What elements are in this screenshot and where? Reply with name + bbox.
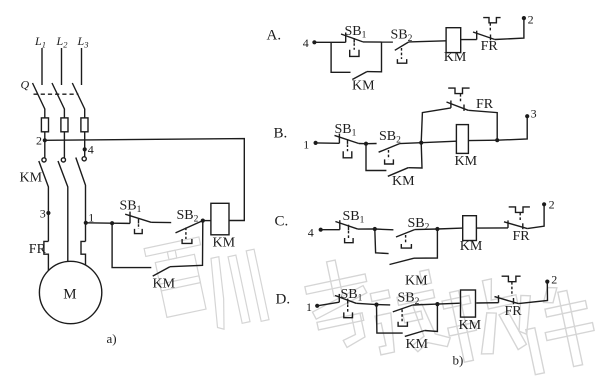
svg-text:KM: KM <box>406 337 429 352</box>
svg-text:SB1: SB1 <box>345 24 367 41</box>
coil KM label (B) <box>455 154 478 169</box>
watermark char 川 <box>203 249 269 330</box>
svg-text:D.: D. <box>276 292 291 308</box>
svg-text:KM: KM <box>405 274 428 289</box>
node label L2 <box>56 34 69 50</box>
wire coil to FR (C) <box>476 227 508 229</box>
wire fuse2 down <box>63 132 65 158</box>
SB2 (C) actuator <box>401 235 411 248</box>
switch Q pole 1 blade <box>33 83 45 118</box>
terminal 3 (B) <box>525 114 529 118</box>
wire junction to coil (B) <box>421 141 456 143</box>
watermark char 考 <box>301 255 380 354</box>
FR label (B) <box>476 97 494 112</box>
pushbutton SB2 (D) NO contact <box>393 305 413 312</box>
svg-text:2: 2 <box>36 134 42 148</box>
svg-text:M: M <box>63 286 76 302</box>
SB1 (C) actuator <box>345 231 354 243</box>
node 4 <box>83 147 87 151</box>
terminal 2 (D) <box>545 280 549 284</box>
wire aux branch (B) right <box>408 143 422 168</box>
svg-text:3: 3 <box>40 207 46 221</box>
terminal 4 label (C) <box>308 226 314 240</box>
wire FR branch right-down (B) <box>468 110 497 140</box>
wire SB2 to coil (A) <box>409 41 446 42</box>
SB1 (B) actuator <box>343 144 352 157</box>
junction after SB1 (D) <box>374 303 378 307</box>
junction after SB1 (B) <box>364 142 368 146</box>
KM aux contact (D) <box>405 331 425 337</box>
svg-text:A.: A. <box>267 28 282 44</box>
junction after node 1 <box>110 221 114 225</box>
contactor coil KM (a) <box>211 203 229 235</box>
svg-text:FR: FR <box>476 97 494 112</box>
pushbutton SB2 label (B) <box>379 129 401 146</box>
pushbutton SB1 (C) NC contact <box>335 220 357 230</box>
svg-text:KM: KM <box>455 154 478 169</box>
wire coil to FR (A) <box>461 39 477 41</box>
wire junction to coil (C) <box>437 227 462 230</box>
thermal contact FR (D) <box>495 295 519 304</box>
node label L1 <box>34 34 46 50</box>
svg-text:KM: KM <box>20 171 43 186</box>
node 1 label <box>88 211 94 225</box>
SB2 (B) actuator <box>385 150 394 164</box>
wire SB1 to junction (C) <box>358 228 375 230</box>
node label L3 <box>77 34 89 50</box>
junction after SB2 (B) <box>419 141 423 145</box>
wire aux branch down (a) <box>170 221 203 267</box>
wire coil to junction (B) <box>468 139 497 141</box>
svg-text:FR: FR <box>513 229 531 244</box>
terminal 1 label (D) <box>306 300 312 314</box>
thermal contact FR (B) <box>447 101 469 111</box>
wire node1 down <box>85 223 87 242</box>
SB2 (D) actuator <box>398 310 407 327</box>
wire aux branch (B) left <box>366 144 386 171</box>
contactor KM main label <box>20 171 43 186</box>
svg-text:L3: L3 <box>77 34 89 50</box>
terminal 2 (C) <box>542 202 546 206</box>
pushbutton SB1 (A) NC contact <box>341 33 363 43</box>
pushbutton SB1 label (A) <box>345 24 367 41</box>
svg-text:B.: B. <box>274 126 288 142</box>
switch Q pole 3 blade <box>72 83 84 118</box>
watermark char 试 <box>366 268 452 360</box>
wire junction to SB2 (D) <box>377 304 391 306</box>
wire 4 to SB1 (C) <box>321 229 340 231</box>
wire SB2 to junction (D) <box>413 303 438 306</box>
pushbutton SB2 (a) NO contact <box>176 221 203 233</box>
thermal contact FR (A) <box>473 31 495 41</box>
thermal contact FR (C) <box>504 220 527 229</box>
coil KM label (C) <box>460 239 483 254</box>
FR actuator (D) <box>502 276 521 296</box>
svg-text:4: 4 <box>308 226 314 240</box>
junction after SB1 (C) <box>373 227 377 231</box>
wire aux branch (D) right <box>425 304 438 331</box>
svg-text:b): b) <box>453 353 464 368</box>
node 4 label <box>88 143 94 157</box>
coil KM label (A) <box>444 50 467 65</box>
svg-text:1: 1 <box>303 137 309 151</box>
KM aux label (A) <box>352 79 375 94</box>
FR actuator (A) <box>483 18 500 31</box>
svg-text:KM: KM <box>444 50 467 65</box>
node 3 label <box>40 207 46 221</box>
wire SB1 to junction (B) <box>359 143 366 145</box>
wire coil to FR (D) <box>476 302 498 304</box>
svg-text:L2: L2 <box>56 34 69 50</box>
node 3 <box>46 211 50 215</box>
svg-text:a): a) <box>107 331 117 346</box>
wire SB2 to junction (B) <box>400 142 422 145</box>
wire fuse3 down <box>84 132 86 157</box>
wire 1 to SB1 (D) <box>317 302 339 306</box>
wire junction to SB2 (C) <box>375 228 394 231</box>
svg-text:KM: KM <box>392 174 415 189</box>
fuse FU1 <box>41 118 48 132</box>
svg-text:KM: KM <box>213 236 236 251</box>
watermark char 件 <box>511 280 600 376</box>
wire FR to terminal 2 (C) <box>527 204 544 228</box>
svg-text:2: 2 <box>549 198 555 212</box>
KM aux contact (A) <box>352 72 367 80</box>
FR actuator (B) <box>448 88 469 102</box>
FR label (A) <box>481 39 499 54</box>
SB1 (a) actuator <box>135 224 143 233</box>
svg-text:1: 1 <box>306 300 312 314</box>
terminal 4 label (A) <box>303 36 309 50</box>
wire node2 to control branch <box>45 139 245 221</box>
option label A. <box>267 28 282 44</box>
svg-text:FR: FR <box>481 39 499 54</box>
svg-text:KM: KM <box>460 239 483 254</box>
wire fuse1 to node 2 <box>44 132 46 141</box>
option label D. <box>276 292 291 308</box>
KM aux contact (a) <box>153 267 170 276</box>
svg-text:SB2: SB2 <box>379 129 401 146</box>
pushbutton SB2 (B) NO contact <box>379 144 400 153</box>
coil KM label (a) <box>213 236 236 251</box>
label b) <box>453 353 464 368</box>
wire junction to coil (D) <box>437 302 459 305</box>
watermark char 百 <box>144 237 214 319</box>
wire node2 to KM1 contact <box>44 140 46 158</box>
terminal 2 label (A) <box>528 13 534 27</box>
switch Q label <box>21 78 30 92</box>
KM aux contact (C) <box>390 258 415 264</box>
KM aux label (C) <box>405 274 428 289</box>
wire L3 drop <box>81 48 83 85</box>
terminal 2 label (C) <box>549 198 555 212</box>
terminal 2 label (D) <box>551 273 557 287</box>
svg-text:KM: KM <box>459 318 482 333</box>
thermal relay FR label <box>29 242 47 257</box>
SB2 (a) actuator <box>182 228 192 244</box>
terminal 1 (B) <box>314 141 318 145</box>
wire junction to coil (a) <box>203 220 211 222</box>
wire FR to terminal 2 (A) <box>495 18 524 39</box>
SB2 (A) actuator <box>397 48 406 63</box>
terminal 3 label (B) <box>531 106 537 120</box>
wire L2 drop <box>61 48 63 85</box>
svg-text:L1: L1 <box>34 34 46 50</box>
KM main contact pole1 <box>39 158 49 213</box>
svg-text:FR: FR <box>505 304 523 319</box>
contactor coil KM (D) <box>461 290 476 317</box>
pushbutton SB2 label (A) <box>391 28 413 45</box>
wire aux branch (D) left <box>377 305 403 334</box>
KM main contact pole2 <box>58 158 68 262</box>
option label C. <box>275 214 289 230</box>
KM aux contact (B) <box>388 168 408 177</box>
pushbutton SB1 label (D) <box>341 287 363 304</box>
terminal 4 (C) <box>319 228 323 232</box>
wire FR branch up-left (B) <box>421 108 451 143</box>
pushbutton SB2 (A) NO contact <box>395 42 409 50</box>
FR actuator (C) <box>509 207 530 221</box>
svg-text:KM: KM <box>153 276 176 291</box>
pushbutton SB1 (B) NC contact <box>335 134 359 144</box>
fuse FU3 <box>81 118 88 132</box>
SB1 (D) actuator <box>344 304 353 317</box>
pushbutton SB1 (D) NC contact <box>335 294 356 304</box>
pushbutton SB1 label (B) <box>335 122 357 139</box>
wire node3 to FR <box>47 213 49 241</box>
KM aux label (D) <box>406 337 429 352</box>
wire L1 drop <box>41 48 43 85</box>
wire SB1 to SB2 (A) <box>363 41 393 43</box>
junction SB2/coil/aux (a) <box>201 219 205 223</box>
SB1 (A) actuator <box>350 43 359 56</box>
svg-text:KM: KM <box>352 79 375 94</box>
wire to terminal 3 (B) <box>497 116 527 140</box>
node 2 <box>43 138 47 142</box>
wire aux branch left (a) <box>112 223 151 267</box>
wire aux branch (A) right <box>367 42 382 72</box>
svg-text:3: 3 <box>531 106 537 120</box>
wire aux branch (C) left <box>375 229 389 254</box>
node 1 <box>84 221 88 225</box>
wire 4 to SB1 (A) <box>314 41 345 43</box>
pushbutton SB2 label (D) <box>398 291 420 308</box>
wire 1 to SB1 (B) <box>316 142 340 144</box>
wire SB1 to SB2 (a) <box>151 221 171 223</box>
FR label (D) <box>505 304 523 319</box>
pushbutton SB2 (C) NO contact <box>396 230 415 237</box>
switch Q pole 2 blade <box>52 83 64 118</box>
pushbutton SB1 (a) NC contact <box>125 212 151 224</box>
switch Q linkage (dashed) <box>34 93 79 95</box>
svg-text:4: 4 <box>303 36 309 50</box>
wire aux branch (C) right <box>414 229 437 258</box>
label a) <box>107 331 117 346</box>
junction after coil (B) <box>495 138 499 142</box>
svg-text:2: 2 <box>551 273 557 287</box>
watermark char 软 <box>440 275 528 365</box>
wire SB1 to junction (D) <box>356 303 376 304</box>
wire FR to terminal 2 (D) <box>518 282 547 304</box>
wire node1 to junction <box>86 222 112 224</box>
fuse FU2 <box>61 118 68 132</box>
terminal 2 (A) <box>522 16 526 20</box>
FR heater pole3 <box>81 241 86 265</box>
terminal 1 label (B) <box>303 137 309 151</box>
svg-text:SB2: SB2 <box>177 208 199 225</box>
contactor coil KM (C) <box>463 216 477 241</box>
contactor coil KM (B) <box>456 125 468 154</box>
wire junction to SB1 <box>112 222 130 224</box>
terminal 1 (D) <box>315 304 319 308</box>
KM main contact pole3 <box>76 157 86 223</box>
pushbutton SB2 label (C) <box>408 216 430 233</box>
KM aux label (B) <box>392 174 415 189</box>
motor M <box>39 261 101 323</box>
FR heater pole1 <box>44 241 49 271</box>
wire junction to SB2 (B) <box>366 143 377 145</box>
svg-text:4: 4 <box>88 143 94 157</box>
svg-text:SB1: SB1 <box>343 209 365 226</box>
svg-text:2: 2 <box>528 13 534 27</box>
junction after SB2 (C) <box>435 227 439 231</box>
wire SB2 to junction (C) <box>415 228 438 231</box>
contactor coil KM (A) <box>446 28 461 53</box>
pushbutton SB1 label (a) <box>120 199 142 216</box>
svg-text:C.: C. <box>275 214 289 230</box>
pushbutton SB1 label (C) <box>343 209 365 226</box>
svg-text:Q: Q <box>21 78 30 92</box>
junction after SB2 (D) <box>435 302 439 306</box>
FR label (C) <box>513 229 531 244</box>
coil KM label (D) <box>459 318 482 333</box>
terminal 4 (A) <box>312 40 316 44</box>
option label B. <box>274 126 288 142</box>
wire aux branch (A) left <box>331 42 350 72</box>
node 2 label <box>36 134 42 148</box>
pushbutton SB2 label (a) <box>177 208 199 225</box>
KM aux label (a) <box>153 276 176 291</box>
